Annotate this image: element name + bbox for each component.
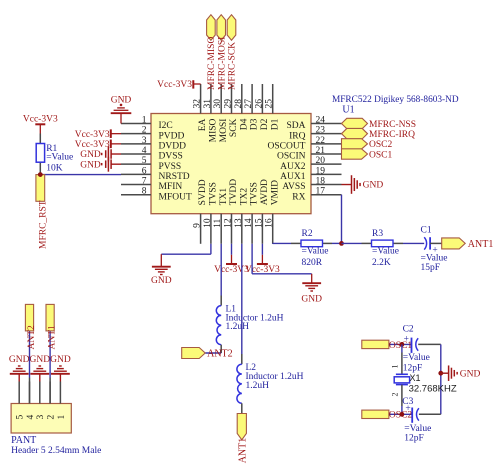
PANT gnd stub [18,374,20,382]
U1 pin 19 AUX1 [311,173,342,175]
PANT gnd stub [39,374,41,382]
svg-text:Vcc-3V3: Vcc-3V3 [157,80,192,90]
svg-text:SVDD: SVDD [198,179,208,205]
net flag ANT1 bottom [237,414,246,440]
U1 pin 9 SVDD [200,214,202,244]
connector PANT body [11,404,71,434]
svg-text:AVDD: AVDD [260,179,270,205]
resistor R1 [39,134,41,144]
svg-text:24: 24 [316,116,326,126]
svg-text:MFRC-MISO: MFRC-MISO [207,37,217,90]
U1 pin 8 MFOUT [121,194,151,196]
svg-text:OSCIN: OSCIN [277,152,306,162]
net flag OSC2 at pin 22 [342,139,368,149]
svg-text:D1: D1 [270,118,280,130]
svg-text:TVDD: TVDD [229,179,239,206]
svg-text:D4: D4 [239,118,249,130]
ground GND at PANT pin 5 [10,373,29,375]
ground GND at pin 4 [110,149,112,159]
power Vcc-3V3 at pin 15 [261,244,263,255]
net flag MFRC_RST [36,175,45,202]
svg-text:VMID: VMID [270,180,280,205]
svg-text:3: 3 [142,136,147,146]
svg-text:MFIN: MFIN [159,182,183,192]
svg-text:R2: R2 [302,229,313,239]
svg-text:Vcc-3V3: Vcc-3V3 [23,115,58,125]
svg-text:28: 28 [234,99,244,109]
svg-text:12pF: 12pF [404,434,424,444]
svg-text:ANT2: ANT2 [27,325,37,350]
net flag ANT1 at header [46,304,54,331]
U1 pin 27 D3 [251,84,253,114]
svg-text:27: 27 [244,99,254,109]
U1 pin 28 D4 [241,84,243,114]
U1 pin 11 TX1 [220,214,222,244]
svg-text:21: 21 [316,146,326,156]
svg-text:=Value: =Value [302,247,329,257]
svg-text:=Value: =Value [46,152,73,162]
U1 pin 15 AVDD [261,214,263,244]
net flag OSC1 at crystal [362,340,389,348]
ground GND at PANT pin 1 [51,373,70,375]
svg-text:PANT: PANT [11,435,36,446]
wire OSC2 row [389,413,412,415]
junction OSC2/crystal [400,412,405,417]
svg-text:820R: 820R [302,258,323,268]
svg-text:MISO: MISO [209,118,219,142]
svg-text:16: 16 [265,218,275,228]
svg-text:5: 5 [142,156,147,166]
svg-text:8: 8 [142,187,147,197]
wire junction to R3 [342,242,362,244]
svg-text:Vcc-3V3: Vcc-3V3 [214,265,249,275]
U1 pin 31 MISO [210,84,212,114]
wire VMID to R2 [272,242,274,244]
svg-text:26: 26 [254,99,264,109]
svg-text:MFRC-MOSI: MFRC-MOSI [217,37,227,90]
svg-text:OSC1: OSC1 [369,150,392,160]
svg-text:=Value: =Value [372,247,399,257]
capacitor C1 polarized [424,237,426,249]
svg-text:10: 10 [203,218,213,228]
svg-text:DVDD: DVDD [159,141,187,151]
svg-text:GND: GND [80,150,101,160]
U1 pin 29 SCK [231,84,233,114]
U1 pin 14 TVSS [251,214,253,244]
U1 pin 23 IRQ [311,133,342,135]
svg-text:1: 1 [391,365,400,369]
U1 pin 3 DVDD [121,143,151,145]
svg-text:GND: GND [9,355,30,365]
svg-text:2: 2 [47,415,57,420]
svg-text:TVSS: TVSS [209,182,219,205]
svg-text:=Value: =Value [403,353,430,363]
net flag ANT2 at header [25,304,33,331]
svg-text:1: 1 [57,415,67,420]
net flag ANT1 right [442,238,466,249]
U1 pin 6 NRSTD [121,173,151,175]
svg-text:PVSS: PVSS [159,162,182,172]
svg-text:31: 31 [203,99,213,109]
svg-text:12pF: 12pF [403,363,423,373]
crystal X1 [396,373,408,375]
svg-text:D2: D2 [260,118,270,130]
U1 pin 24 SDA [311,123,342,125]
svg-text:C1: C1 [421,225,432,235]
inductor L1 [216,306,221,345]
wire crystal top [401,344,403,352]
svg-text:11: 11 [213,219,223,228]
U1 pin 7 MFIN [121,184,151,186]
svg-text:D3: D3 [250,118,260,130]
svg-text:SCK: SCK [229,118,239,137]
ground GND at crystal [441,372,449,374]
svg-text:30: 30 [213,99,223,109]
svg-text:AUX1: AUX1 [280,172,306,182]
PANT pin 5 [18,382,20,404]
inductor L2 [237,364,242,403]
svg-text:OSCOUT: OSCOUT [267,141,305,151]
U1 pin 26 D2 [261,84,263,114]
svg-text:DVSS: DVSS [159,152,183,162]
net flag MFRC-SCK [227,15,236,41]
svg-text:Header 5 2.54mm Male: Header 5 2.54mm Male [11,446,101,456]
svg-text:2.2K: 2.2K [372,258,391,268]
svg-text:IRQ: IRQ [289,131,306,141]
svg-text:4: 4 [142,146,147,156]
net flag ANT2 [182,348,206,359]
svg-text:U1: U1 [342,105,354,116]
svg-text:Vcc-3V3: Vcc-3V3 [75,130,110,140]
wire C3 to right rail [419,413,441,415]
svg-text:GND: GND [80,160,101,170]
svg-text:PVDD: PVDD [159,131,185,141]
wire TVSS pin14 to GND [251,244,253,274]
PANT pin 1 [59,382,61,404]
U1 pin 25 D1 [272,84,274,114]
U1 pin 32 EA [200,84,202,114]
svg-text:MOSI: MOSI [219,119,229,143]
svg-text:R3: R3 [372,229,383,239]
svg-text:EA: EA [198,118,208,131]
svg-text:MFRC-SCK: MFRC-SCK [228,42,238,90]
junction RX/R2/R3 [339,241,344,246]
svg-text:TVSS: TVSS [250,182,260,205]
svg-text:GND: GND [460,369,481,379]
svg-text:NRSTD: NRSTD [159,172,190,182]
U1 pin 17 RX [311,194,342,196]
resistor R3 [362,242,372,244]
ground GND at pin 18 [342,184,352,186]
net flag MFRC-IRQ at pin 23 [342,128,368,138]
svg-text:2: 2 [142,126,147,136]
wire L1 to ANT2 flag [220,345,222,353]
wire NRSTD net [40,174,121,176]
U1 pin 2 PVDD [121,133,151,135]
svg-text:MFRC_RST: MFRC_RST [38,200,48,249]
svg-text:GND: GND [30,355,51,365]
svg-text:TX2: TX2 [239,188,249,206]
U1 pin 5 PVSS [121,163,151,165]
svg-text:25: 25 [265,99,275,109]
ground GND at pin 5 [110,159,112,169]
svg-text:9: 9 [193,223,203,228]
wire crystal bottom [401,385,403,406]
svg-text:7: 7 [142,177,147,187]
svg-text:18: 18 [316,177,326,187]
svg-text:AUX2: AUX2 [280,162,306,172]
U1 pin 16 VMID [272,214,274,244]
U1 pin 30 MOSI [220,84,222,114]
U1 pin 13 TX2 [241,214,243,244]
svg-text:20: 20 [316,156,326,166]
svg-text:ANT1: ANT1 [237,438,248,464]
wire TX2 to L2 [241,244,243,354]
wire ANT1 to PANT pin 2 [49,331,51,378]
svg-text:32.768KHZ: 32.768KHZ [409,383,457,394]
svg-text:2: 2 [391,393,400,397]
PANT pin 4 [29,382,31,404]
ground GND under pin 14 [311,274,313,283]
svg-text:22: 22 [316,136,326,146]
svg-text:RX: RX [292,192,305,202]
wire C2 to right rail [418,343,441,345]
net flag OSC2 at crystal [362,410,389,418]
svg-text:ANT1: ANT1 [47,325,57,350]
power Vcc-3V3 at pin 12 [231,244,233,255]
svg-text:GND: GND [363,181,384,191]
junction OSC1/crystal [400,342,405,347]
U1 pin 12 TVDD [231,214,233,244]
svg-text:6: 6 [142,166,147,176]
U1 pin 10 TVSS [210,214,212,244]
wire C1 to ANT1 flag [430,242,442,244]
wire RX net [341,195,343,244]
U1 pin 22 OSCOUT [311,143,342,145]
wire R3 to C1 [403,242,424,244]
net flag OSC1 at pin 21 [342,149,368,159]
svg-text:13: 13 [234,218,244,228]
svg-text:GND: GND [151,276,172,286]
net flag MFRC-MISO [207,15,216,41]
svg-text:32: 32 [193,99,203,109]
U1 pin 21 OSCIN [311,153,342,155]
svg-text:C2: C2 [403,325,414,335]
svg-text:TX1: TX1 [219,188,229,206]
svg-text:+: + [405,404,410,414]
svg-text:23: 23 [316,126,326,136]
svg-text:19: 19 [316,166,326,176]
wire R2 to junction [332,242,342,244]
svg-text:+: + [404,334,409,344]
ground GND at PANT pin 3 [30,373,49,375]
svg-text:14: 14 [244,218,254,228]
net flag MFRC-NSS at pin 24 [342,118,368,128]
svg-text:1.2uH: 1.2uH [226,322,250,332]
PANT pin 2 [49,382,51,404]
wire TX1 to L1 [220,244,222,296]
svg-text:Vcc-3V3: Vcc-3V3 [75,140,110,150]
svg-text:X1: X1 [410,373,421,383]
wire TVSS pin10 to GND [210,244,212,254]
svg-text:AVSS: AVSS [282,182,305,192]
svg-text:29: 29 [224,99,234,109]
svg-text:1.2uH: 1.2uH [246,381,270,391]
svg-text:4: 4 [26,415,36,420]
U1 pin 4 DVSS [121,153,151,155]
svg-text:ANT2: ANT2 [207,349,233,360]
svg-text:MFRC522 Digikey 568-8603-ND: MFRC522 Digikey 568-8603-ND [332,95,459,105]
svg-text:SDA: SDA [286,121,305,131]
PANT pin 3 [39,382,41,404]
svg-text:MFOUT: MFOUT [159,192,192,202]
PANT gnd stub [59,374,61,382]
IC U1 MFRC522 body [151,114,311,214]
U1 pin 20 AUX2 [311,163,342,165]
svg-text:GND: GND [301,295,322,305]
junction at R1 bottom [38,172,43,177]
svg-text:I2C: I2C [159,121,173,131]
wire right rail [440,344,442,414]
svg-text:3: 3 [36,415,46,420]
svg-text:MFRC-NSS: MFRC-NSS [369,120,416,130]
wire OSC1 row [389,343,412,345]
svg-text:OSC2: OSC2 [369,140,392,150]
svg-text:5: 5 [16,415,26,420]
U1 pin 1 I2C [121,123,151,125]
ground GND under pin 10 [160,254,162,267]
wire L2 to ANT1 flag [241,403,243,413]
junction GND tap [438,371,443,376]
svg-text:GND: GND [50,355,71,365]
svg-text:15: 15 [254,218,264,228]
svg-text:ANT1: ANT1 [468,239,494,250]
wire ANT2 to PANT pin 4 [29,331,31,378]
svg-text:10K: 10K [46,163,63,173]
svg-text:1: 1 [142,116,147,126]
U1 pin 18 AVSS [311,184,342,186]
svg-text:15pF: 15pF [421,263,441,273]
svg-text:12: 12 [224,218,234,228]
svg-text:MFRC-IRQ: MFRC-IRQ [369,130,415,140]
svg-text:17: 17 [316,187,326,197]
resistor R2 [291,242,301,244]
net flag MFRC-MOSI [217,15,226,41]
